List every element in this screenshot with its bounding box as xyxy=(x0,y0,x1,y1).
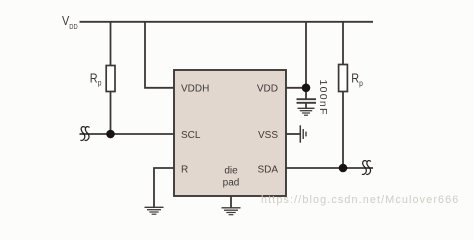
wire VSS pin to ground xyxy=(286,133,300,135)
ground (R pin) xyxy=(145,207,164,214)
svg-text:VDDH: VDDH xyxy=(181,84,209,95)
wire rail to VDD node xyxy=(305,22,307,99)
wire die pad to ground xyxy=(230,196,232,208)
junction dot SCL/Rp xyxy=(106,130,115,139)
svg-text:SDA: SDA xyxy=(257,164,278,175)
junction dot SDA/Rp xyxy=(339,164,348,173)
svg-text:VSS: VSS xyxy=(258,130,278,141)
op IC U1 body xyxy=(174,70,286,196)
resistor Rp (right pull-up) xyxy=(339,65,348,92)
off-page connector SCL (double squiggle) xyxy=(81,127,89,141)
ground (capacitor) xyxy=(298,108,315,115)
svg-text:100nF: 100nF xyxy=(317,80,329,116)
wire resistor Rp right to SDA node xyxy=(342,92,344,169)
ground (die pad) xyxy=(222,208,241,215)
wire rail to resistor Rp right xyxy=(342,22,344,65)
wire SDA line xyxy=(286,167,373,169)
junction dot VDD/C1 xyxy=(302,84,311,93)
ground (VSS, rotated right) xyxy=(300,125,306,142)
svg-text:pad: pad xyxy=(223,178,240,189)
wire rail to VDDH pin xyxy=(145,22,174,88)
capacitor C1 100nF plates xyxy=(297,99,317,108)
off-page connector SDA (double squiggle) xyxy=(362,161,370,175)
wire R pin to ground xyxy=(154,168,174,207)
svg-text:VDD: VDD xyxy=(257,84,278,95)
svg-text:die: die xyxy=(224,166,238,177)
wire VDD pin to capacitor node xyxy=(286,87,306,89)
svg-text:SCL: SCL xyxy=(181,130,201,141)
wire rail to resistor Rp left xyxy=(110,22,112,66)
net VDD power rail xyxy=(80,21,374,23)
svg-text:https://blog.csdn.net/Mculover: https://blog.csdn.net/Mculover666 xyxy=(261,194,459,206)
wire SCL line xyxy=(80,133,175,135)
svg-text:R: R xyxy=(181,164,188,175)
resistor Rp (left pull-up) xyxy=(106,66,115,92)
wire resistor Rp left to SCL node xyxy=(110,92,112,135)
